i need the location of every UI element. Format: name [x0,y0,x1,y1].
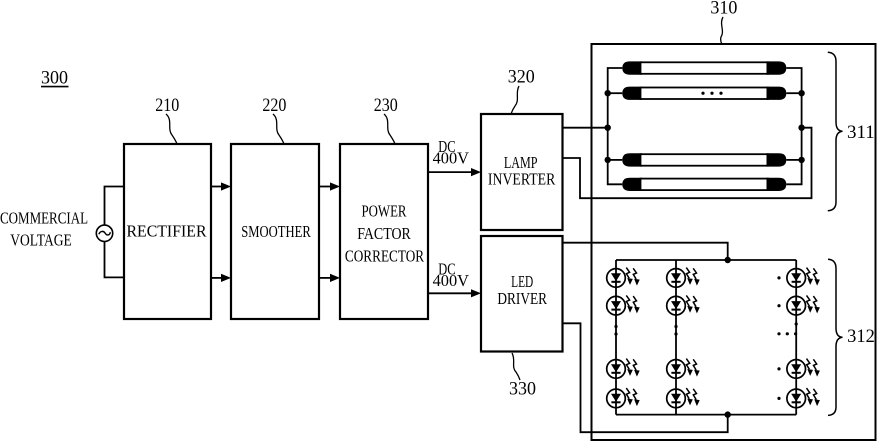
junction dot led top [725,257,731,263]
svg-text:400V: 400V [433,271,470,290]
arrow rectifier to smoother top [211,182,231,190]
svg-text:310: 310 [710,0,737,18]
wire lamp inverter output A [563,127,608,129]
LED column3 row4 [787,388,820,408]
leader 320 [511,86,519,114]
arrow smoother to pfc bottom [319,274,340,282]
svg-text:VOLTAGE: VOLTAGE [10,230,72,249]
svg-text:INVERTER: INVERTER [488,170,556,189]
LED column2 row3 [667,359,700,379]
svg-text:300: 300 [41,68,68,89]
svg-text:SMOOTHER: SMOOTHER [241,222,311,241]
LED column3 row2 [787,295,820,315]
wire ac source loop [105,187,125,278]
junction dots lamp buses [605,90,805,163]
LED column2 row2 [667,295,700,315]
led column 1 wire [615,260,617,415]
arrow pfc to led driver [428,289,481,297]
lamp left bus stubs [608,92,623,94]
LED column1 row4 [607,388,640,408]
LED column1 row2 [607,295,640,315]
leader 230 [384,114,395,144]
lamp right bus stubs [786,92,801,94]
LED column1 row1 [607,268,640,288]
LED column2 row1 [667,268,700,288]
leader 220 [273,114,284,144]
arrow rectifier to smoother bottom [211,274,231,282]
column ellipsis dots [614,276,797,400]
block POWER FACTOR CORRECTOR 230 [340,144,428,319]
label 300 [41,68,69,89]
svg-text:POWER: POWER [362,202,408,221]
fluorescent tube 2 [622,87,786,100]
fluorescent tube 3 [622,153,786,166]
label COMMERCIAL VOLTAGE [0,208,88,249]
svg-text:COMMERCIAL: COMMERCIAL [0,208,88,227]
fluorescent tube 1 [622,61,786,74]
brace 311 [828,52,843,210]
arrow pfc to lamp inverter [428,168,481,176]
block SMOOTHER 220 [231,144,319,319]
block LAMP INVERTER 320 [481,114,563,230]
svg-text:230: 230 [374,95,398,116]
LED column3 row1 [787,268,820,288]
svg-text:FACTOR: FACTOR [357,224,411,243]
svg-text:330: 330 [509,379,536,400]
led column 3 wire [795,260,797,415]
svg-text:320: 320 [508,67,535,88]
leader 310 [721,17,723,44]
box 310 (lighting unit) [592,44,876,440]
lamp left bus [608,68,623,184]
wire lamp inverter output B (return) [563,128,812,199]
leader 330 [512,353,520,380]
svg-text:220: 220 [262,95,286,116]
ac source [96,225,112,241]
wire led driver output [563,243,728,260]
leader 210 [166,114,177,144]
svg-text:312: 312 [847,326,875,347]
svg-text:311: 311 [847,122,875,143]
LED column1 row3 [607,359,640,379]
arrow smoother to pfc top [319,182,340,190]
svg-text:CORRECTOR: CORRECTOR [345,247,425,266]
brace 312 [828,259,843,415]
svg-text:210: 210 [155,95,179,116]
ellipsis in tube 2 [701,92,722,95]
fluorescent tube 4 [622,178,786,191]
led top bus [616,259,796,261]
label DC 400V bottom [433,260,470,291]
lamp right bus [786,68,801,184]
svg-text:DRIVER: DRIVER [497,289,547,308]
block LED DRIVER 330 [481,236,563,352]
label DC 400V top [433,137,470,168]
LED column2 row4 [667,388,700,408]
junction dot led bottom [725,411,731,417]
svg-text:RECTIFIER: RECTIFIER [127,221,208,240]
led column 2 wire [675,260,677,415]
led bottom bus [616,414,796,416]
svg-text:400V: 400V [433,148,470,167]
block RECTIFIER 210 [124,144,211,319]
wire led driver return [563,323,728,432]
LED column3 row3 [787,359,820,379]
